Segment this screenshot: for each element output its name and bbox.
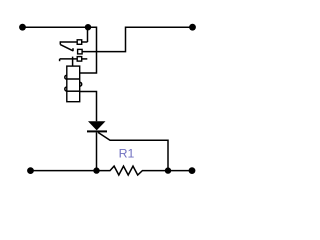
junction J3 — [165, 167, 171, 173]
thyristor SCR — [87, 121, 107, 132]
svg-text:R1: R1 — [119, 146, 135, 160]
wire bottom rail: junction J3 to terminal D — [168, 170, 192, 172]
node A: top-left terminal — [19, 24, 26, 31]
relay contact switch: moving lever — [60, 45, 73, 52]
node C: bottom-left terminal — [27, 167, 34, 174]
resistor R1 — [97, 166, 169, 175]
node B: top-right terminal — [189, 24, 196, 31]
wire top rail: terminal A to junction J1 — [23, 26, 89, 28]
relay contact switch: middle contact row — [78, 49, 83, 54]
wire bottom rail: terminal C to junction J2 — [31, 170, 97, 172]
node D: bottom-right terminal — [189, 167, 196, 174]
relay contact switch: bottom contact row — [60, 57, 88, 62]
wire: SCR gate right and down to resistor right junction — [98, 132, 168, 170]
wire: relay coil lower-right pin to SCR anode — [80, 92, 97, 122]
junction J1 — [85, 24, 91, 30]
relay contact switch: top contact row — [60, 40, 87, 45]
junction J2 — [93, 167, 99, 173]
wire: bottom contact tap down to relay coil top pin — [72, 57, 74, 67]
relay coil — [65, 66, 82, 102]
wire: junction J1 down to switch top contact — [87, 27, 89, 42]
wire: middle contact right, up, to top-right terminal — [82, 27, 192, 51]
wire: SCR cathode down to bottom rail junction J2 — [96, 132, 98, 170]
wire: junction J1 right then down to relay coil upper-right pin — [80, 27, 97, 73]
